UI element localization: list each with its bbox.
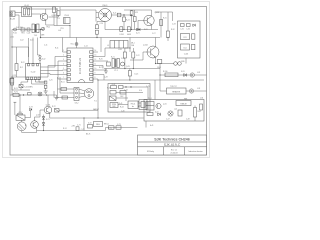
svg-text:IC-02: IC-02 xyxy=(31,72,36,74)
svg-text:F-01: F-01 xyxy=(13,33,17,35)
svg-text:J-34: J-34 xyxy=(200,98,203,100)
svg-text:R-21: R-21 xyxy=(111,57,115,59)
capacitor C-304 xyxy=(184,44,195,55)
wire AC mid run xyxy=(105,29,158,31)
svg-text:R-24: R-24 xyxy=(126,19,130,21)
svg-text:T-01: T-01 xyxy=(34,35,37,37)
wire xyxy=(98,48,110,57)
svg-text:Induction heater: Induction heater xyxy=(188,150,203,153)
transistor Q-701 xyxy=(44,105,52,114)
svg-text:E-41: E-41 xyxy=(150,125,153,127)
wire main bus xyxy=(41,37,161,39)
oscillator block xyxy=(110,91,143,95)
svg-text:14: 14 xyxy=(95,50,97,52)
wire xyxy=(47,95,49,106)
outer border frame xyxy=(3,2,210,158)
svg-text:K2Gmly: K2Gmly xyxy=(147,151,154,153)
wire xyxy=(159,64,161,92)
wire heater row xyxy=(160,74,190,76)
svg-text:C-27: C-27 xyxy=(152,33,156,35)
wire xyxy=(97,80,99,118)
wire xyxy=(98,66,103,69)
svg-text:R-43: R-43 xyxy=(107,88,111,90)
thermistor TH-01 xyxy=(157,60,162,64)
svg-text:J-33: J-33 xyxy=(197,88,200,90)
pin number labels IC-01 xyxy=(63,50,96,79)
varistor RV-01 xyxy=(21,28,25,35)
svg-text:R-71: R-71 xyxy=(14,91,18,93)
svg-text:C-305: C-305 xyxy=(184,54,188,56)
lamp L-701 xyxy=(38,92,42,96)
svg-text:C-45: C-45 xyxy=(146,86,150,88)
svg-text:Q-72: Q-72 xyxy=(36,115,40,117)
svg-text:X-02: X-02 xyxy=(42,59,45,61)
bridge rectifier DB-01 xyxy=(110,41,135,49)
wire power bus lower xyxy=(98,79,204,81)
resistor R-205 xyxy=(124,10,149,30)
wire xyxy=(112,14,125,16)
svg-text:RY1: RY1 xyxy=(61,28,64,30)
wire xyxy=(32,13,41,15)
svg-text:C-32: C-32 xyxy=(186,29,190,31)
wire xyxy=(22,131,37,133)
node A xyxy=(40,29,41,30)
svg-text:C-44: C-44 xyxy=(124,90,128,92)
svg-text:HEATER: HEATER xyxy=(172,90,181,93)
svg-text:D-71: D-71 xyxy=(46,119,50,121)
svg-text:TOP-PLT: TOP-PLT xyxy=(170,86,177,88)
transistor Q-201 xyxy=(144,12,159,26)
sub-board box (display unit) xyxy=(178,21,201,58)
svg-text:R-11: R-11 xyxy=(55,48,58,50)
svg-text:BZ-71: BZ-71 xyxy=(86,133,90,135)
wire bottom bus 2 xyxy=(37,128,138,131)
svg-text:Q-202: Q-202 xyxy=(143,45,148,47)
wire xyxy=(58,61,63,79)
fan motor FM-01 xyxy=(96,5,112,21)
diode D-301 xyxy=(193,24,196,27)
driver block xyxy=(110,103,118,109)
svg-text:D-25: D-25 xyxy=(135,74,139,76)
wire xyxy=(69,26,71,38)
svg-text:S-21: S-21 xyxy=(113,13,116,15)
svg-text:RV1: RV1 xyxy=(21,33,24,35)
svg-text:L-201: L-201 xyxy=(118,49,122,51)
heater coil block xyxy=(167,88,187,94)
wires IC-02 to IC-01 xyxy=(41,57,63,68)
transistor Q-401 xyxy=(156,103,161,108)
wires into IC-02 top pins xyxy=(28,38,30,64)
svg-text:Rev 1.1: Rev 1.1 xyxy=(171,149,177,151)
resistor R-302 xyxy=(166,12,169,41)
resistor R-501 xyxy=(61,88,67,91)
capacitor C-411 xyxy=(200,104,203,110)
svg-text:D-21: D-21 xyxy=(136,33,140,35)
wire right rail xyxy=(160,12,162,38)
svg-text:R-310: R-310 xyxy=(163,71,167,73)
svg-text:DRV: DRV xyxy=(112,106,115,108)
wire xyxy=(62,38,64,53)
svg-text:R-26: R-26 xyxy=(99,59,103,61)
resistor R-410 xyxy=(194,106,197,122)
connector J-303 xyxy=(186,89,207,93)
svg-text:C-11: C-11 xyxy=(44,45,47,47)
wire inside control box xyxy=(118,104,128,106)
round connector P-FAN xyxy=(79,89,97,103)
svg-text:FAN-M: FAN-M xyxy=(181,102,187,105)
svg-text:X-41: X-41 xyxy=(119,103,122,105)
IC-02 (controller) xyxy=(26,64,41,80)
relay RY-02 xyxy=(146,102,154,111)
svg-text:12: 12 xyxy=(95,59,97,61)
resistor R-301 xyxy=(160,20,163,26)
wire lamp row xyxy=(10,94,57,96)
svg-text:R-22: R-22 xyxy=(21,62,25,64)
diode D-310 xyxy=(184,73,187,76)
connector J-302 xyxy=(190,73,206,77)
svg-text:13: 13 xyxy=(95,55,97,57)
power symbol xyxy=(14,102,17,115)
capacitor C-211 xyxy=(132,48,135,69)
connector P-02 xyxy=(10,79,14,84)
svg-text:R-41: R-41 xyxy=(112,84,116,86)
capacitor C-705 xyxy=(55,109,99,113)
resistor R-402 xyxy=(119,86,124,89)
svg-text:RY-01: RY-01 xyxy=(64,15,69,17)
wire xyxy=(151,25,153,30)
IC-01 left pin boxes xyxy=(67,51,70,80)
IC-03 regulator xyxy=(181,34,190,40)
svg-text:C-73: C-73 xyxy=(117,124,121,126)
svg-text:C-28: C-28 xyxy=(104,77,108,79)
svg-text:drv: drv xyxy=(132,106,134,108)
diode D-703 xyxy=(25,107,33,118)
wire xyxy=(98,75,104,81)
svg-text:FM-01: FM-01 xyxy=(103,5,108,7)
svg-text:21.04.03: 21.04.03 xyxy=(171,153,178,155)
svg-text:C-22: C-22 xyxy=(136,55,140,57)
svg-text:R-31: R-31 xyxy=(163,18,167,20)
svg-text:R-27: R-27 xyxy=(99,67,103,69)
svg-text:C-25: C-25 xyxy=(49,80,53,82)
svg-text:PC-1: PC-1 xyxy=(148,98,152,100)
wire bottom bus 1 xyxy=(50,117,144,119)
wire xyxy=(124,14,132,16)
wire main AC run xyxy=(12,29,44,31)
svg-text:L-41: L-41 xyxy=(174,109,177,111)
svg-text:RY-7: RY-7 xyxy=(19,112,23,114)
diode D-201 xyxy=(137,28,140,31)
wire fan header rails xyxy=(58,77,75,98)
capacitor C-210 xyxy=(123,48,130,69)
wire xyxy=(48,66,63,78)
svg-text:CN-2: CN-2 xyxy=(75,102,79,104)
relay RY-01 xyxy=(64,15,71,23)
node B xyxy=(123,14,124,15)
power symbol above IC-01 xyxy=(75,38,78,49)
svg-text:C-46: C-46 xyxy=(121,111,125,113)
thermal switch S-201 xyxy=(117,13,121,17)
svg-text:DB-1: DB-1 xyxy=(131,43,135,45)
ground xyxy=(44,91,48,93)
resistor R-206 xyxy=(133,10,136,30)
svg-text:D-41: D-41 xyxy=(155,112,159,114)
wire xyxy=(147,87,149,100)
buzzer BZ-01 xyxy=(16,95,25,120)
svg-text:HV-01: HV-01 xyxy=(131,103,136,105)
capacitor C-205 xyxy=(44,81,47,91)
wire xyxy=(129,38,131,53)
wire xyxy=(45,9,47,14)
svg-text:IC-4: IC-4 xyxy=(139,90,142,92)
wire xyxy=(54,25,70,27)
svg-text:D-31: D-31 xyxy=(181,71,185,73)
wire xyxy=(43,128,45,131)
svg-text:D-01: D-01 xyxy=(30,40,34,42)
connector J-301 xyxy=(174,62,182,66)
svg-text:IC-01 TMP-21: IC-01 TMP-21 xyxy=(78,57,82,74)
wire xyxy=(138,21,147,30)
svg-text:R-23: R-23 xyxy=(14,88,18,90)
svg-text:10: 10 xyxy=(95,68,97,70)
wire xyxy=(15,12,22,14)
ground xyxy=(104,69,108,74)
IC-04 xyxy=(181,44,190,50)
svg-text:IC3: IC3 xyxy=(184,37,187,39)
wire xyxy=(172,12,174,21)
wire xyxy=(104,68,160,70)
control sub box left xyxy=(108,84,150,113)
wire xyxy=(155,11,173,13)
wire xyxy=(83,118,85,131)
capacitor C-410 xyxy=(178,110,182,116)
svg-text:IC4: IC4 xyxy=(184,47,187,49)
svg-text:C-26: C-26 xyxy=(121,58,125,60)
svg-text:C-33: C-33 xyxy=(172,24,176,26)
svg-text:11: 11 xyxy=(95,64,97,66)
transformer T-01 xyxy=(32,24,39,37)
svg-text:L-02: L-02 xyxy=(58,30,61,32)
resistor R-203 xyxy=(11,78,31,90)
wire xyxy=(155,57,157,64)
svg-text:C-48: C-48 xyxy=(186,119,190,121)
svg-text:Q-41: Q-41 xyxy=(163,104,167,106)
svg-text:D-72: D-72 xyxy=(88,123,92,125)
IC-01 left pin stubs xyxy=(63,52,68,79)
wire xyxy=(155,38,157,48)
title block xyxy=(138,135,207,155)
svg-text:R-25: R-25 xyxy=(135,12,139,14)
svg-text:C-201: C-201 xyxy=(119,34,124,36)
svg-text:C-23: C-23 xyxy=(13,75,17,77)
svg-text:LF-01: LF-01 xyxy=(24,5,29,7)
wire xyxy=(98,69,106,71)
transistor Q-101 xyxy=(40,13,56,21)
node C xyxy=(137,29,138,30)
resistor R-720 xyxy=(109,126,122,129)
capacitor C-202 xyxy=(127,27,132,36)
capacitor C-303 xyxy=(192,34,195,39)
svg-text:R-32: R-32 xyxy=(171,29,175,31)
wire xyxy=(156,63,175,65)
svg-text:R-74: R-74 xyxy=(63,128,67,130)
inner border frame xyxy=(10,7,207,156)
node E xyxy=(23,94,24,95)
motor M-701 xyxy=(17,120,26,130)
svg-text:REG-1: REG-1 xyxy=(104,124,109,126)
svg-text:C-71: C-71 xyxy=(77,125,81,127)
resistor R-310 xyxy=(165,73,178,77)
resistor R-401 xyxy=(111,84,117,89)
svg-text:Z-01: Z-01 xyxy=(11,37,14,39)
svg-text:D-22: D-22 xyxy=(144,29,148,31)
power transistor Q-202 (IGBT) xyxy=(143,45,159,59)
more value labels xyxy=(11,14,204,131)
svg-text:C-14: C-14 xyxy=(84,46,88,48)
fuse F-01 xyxy=(13,28,17,35)
capacitor C-302 xyxy=(186,24,190,31)
value label group (scattered tiny labels) xyxy=(25,12,201,128)
resistor R-502 xyxy=(62,96,68,99)
wire xyxy=(185,58,187,64)
regulator block xyxy=(94,122,103,127)
resistor R-204 xyxy=(123,15,126,30)
svg-text:C-47: C-47 xyxy=(166,119,170,121)
wire xyxy=(49,113,51,118)
svg-text:L-1: L-1 xyxy=(107,45,109,47)
connector CN-01 (AC inlet) xyxy=(10,11,16,20)
comparator block xyxy=(120,91,126,95)
svg-text:R-42: R-42 xyxy=(198,111,202,113)
svg-text:CT-1: CT-1 xyxy=(114,70,118,72)
capacitor C-702 xyxy=(76,127,84,131)
svg-text:R-72: R-72 xyxy=(52,106,56,108)
crystal X-01 xyxy=(19,82,33,90)
wire xyxy=(98,60,108,62)
svg-text:Q-23: Q-23 xyxy=(126,66,130,68)
varistor circle RV-02 xyxy=(41,27,44,30)
svg-text:R-44: R-44 xyxy=(120,107,124,109)
svg-text:Q-201: Q-201 xyxy=(155,12,160,14)
crystal X-401 xyxy=(110,96,129,101)
resistor R-405 xyxy=(147,113,153,116)
wire xyxy=(12,47,29,57)
wire junction down xyxy=(40,30,42,38)
wire xyxy=(59,7,61,10)
node D xyxy=(125,86,126,87)
diode pair D-701 xyxy=(42,115,45,129)
svg-text:SJK Technics CH246: SJK Technics CH246 xyxy=(154,138,190,142)
wire xyxy=(27,7,32,9)
lamp L-401 xyxy=(168,111,173,116)
svg-text:J-32: J-32 xyxy=(197,72,200,74)
wire xyxy=(130,52,151,60)
wire xyxy=(15,14,19,16)
wire loop xyxy=(53,91,55,98)
diode D-205 xyxy=(128,69,138,81)
capacitor C-301 xyxy=(180,24,184,31)
wire xyxy=(56,9,58,26)
wire xyxy=(123,86,143,88)
resistor R-102 xyxy=(53,7,56,26)
switch S-701 xyxy=(28,93,32,95)
transistor Q-702 xyxy=(31,121,39,129)
relay box small xyxy=(107,62,111,66)
svg-text:C-01: C-01 xyxy=(27,33,31,35)
svg-text:R-51: R-51 xyxy=(61,82,65,84)
fan block xyxy=(176,101,191,106)
wire xyxy=(12,76,48,78)
wire xyxy=(149,10,152,16)
resistor R-701 xyxy=(13,91,19,96)
capacitor C-201 xyxy=(119,27,124,36)
current transformer T-201 xyxy=(112,59,119,73)
opto coupler PC-01 xyxy=(138,100,147,110)
svg-text:C-31: C-31 xyxy=(180,29,184,31)
svg-text:C-1: C-1 xyxy=(57,18,60,20)
header CN-02 xyxy=(74,88,79,105)
IC-01 right pin stubs xyxy=(93,52,98,79)
IC-01 right pin boxes xyxy=(90,51,93,80)
hv module xyxy=(128,101,138,109)
wire xyxy=(154,80,156,100)
fan relay box K xyxy=(144,100,204,122)
ground xyxy=(55,95,59,100)
capacitor C-204 stack xyxy=(95,22,105,38)
wire xyxy=(100,38,102,53)
resonant switch small xyxy=(121,62,125,66)
svg-text:P-1: P-1 xyxy=(94,100,97,102)
wire rail 2 xyxy=(16,47,18,64)
svg-text:AC-IN: AC-IN xyxy=(10,17,16,20)
svg-text:C-02: C-02 xyxy=(20,40,24,42)
wire xyxy=(16,71,18,78)
wire xyxy=(160,90,167,92)
svg-text:RV-2: RV-2 xyxy=(47,27,51,29)
capacitor C-103 xyxy=(49,11,61,20)
diode D-401 xyxy=(158,113,161,116)
resistor R-201 xyxy=(15,64,23,71)
diode D-702 xyxy=(88,125,93,129)
svg-text:SJK-619-C: SJK-619-C xyxy=(164,143,181,147)
svg-text:R-2: R-2 xyxy=(20,67,23,69)
IC-02 bottom pin wires xyxy=(21,80,28,83)
svg-text:X-01 4MHz: X-01 4MHz xyxy=(24,86,33,88)
wire xyxy=(145,121,147,128)
svg-text:R-73: R-73 xyxy=(108,128,112,130)
svg-text:C-24: C-24 xyxy=(100,23,104,25)
wire xyxy=(35,110,45,121)
wire left rail xyxy=(11,30,13,96)
line filter LF-01 xyxy=(22,5,32,17)
wire xyxy=(32,83,44,85)
IC-01 main MCU xyxy=(67,48,93,83)
wire xyxy=(39,14,41,17)
wire xyxy=(46,20,54,25)
capacitor C-01 xyxy=(27,28,31,35)
svg-text:CN-3: CN-3 xyxy=(157,67,161,69)
crystal X-02 on pin wire xyxy=(38,55,42,64)
